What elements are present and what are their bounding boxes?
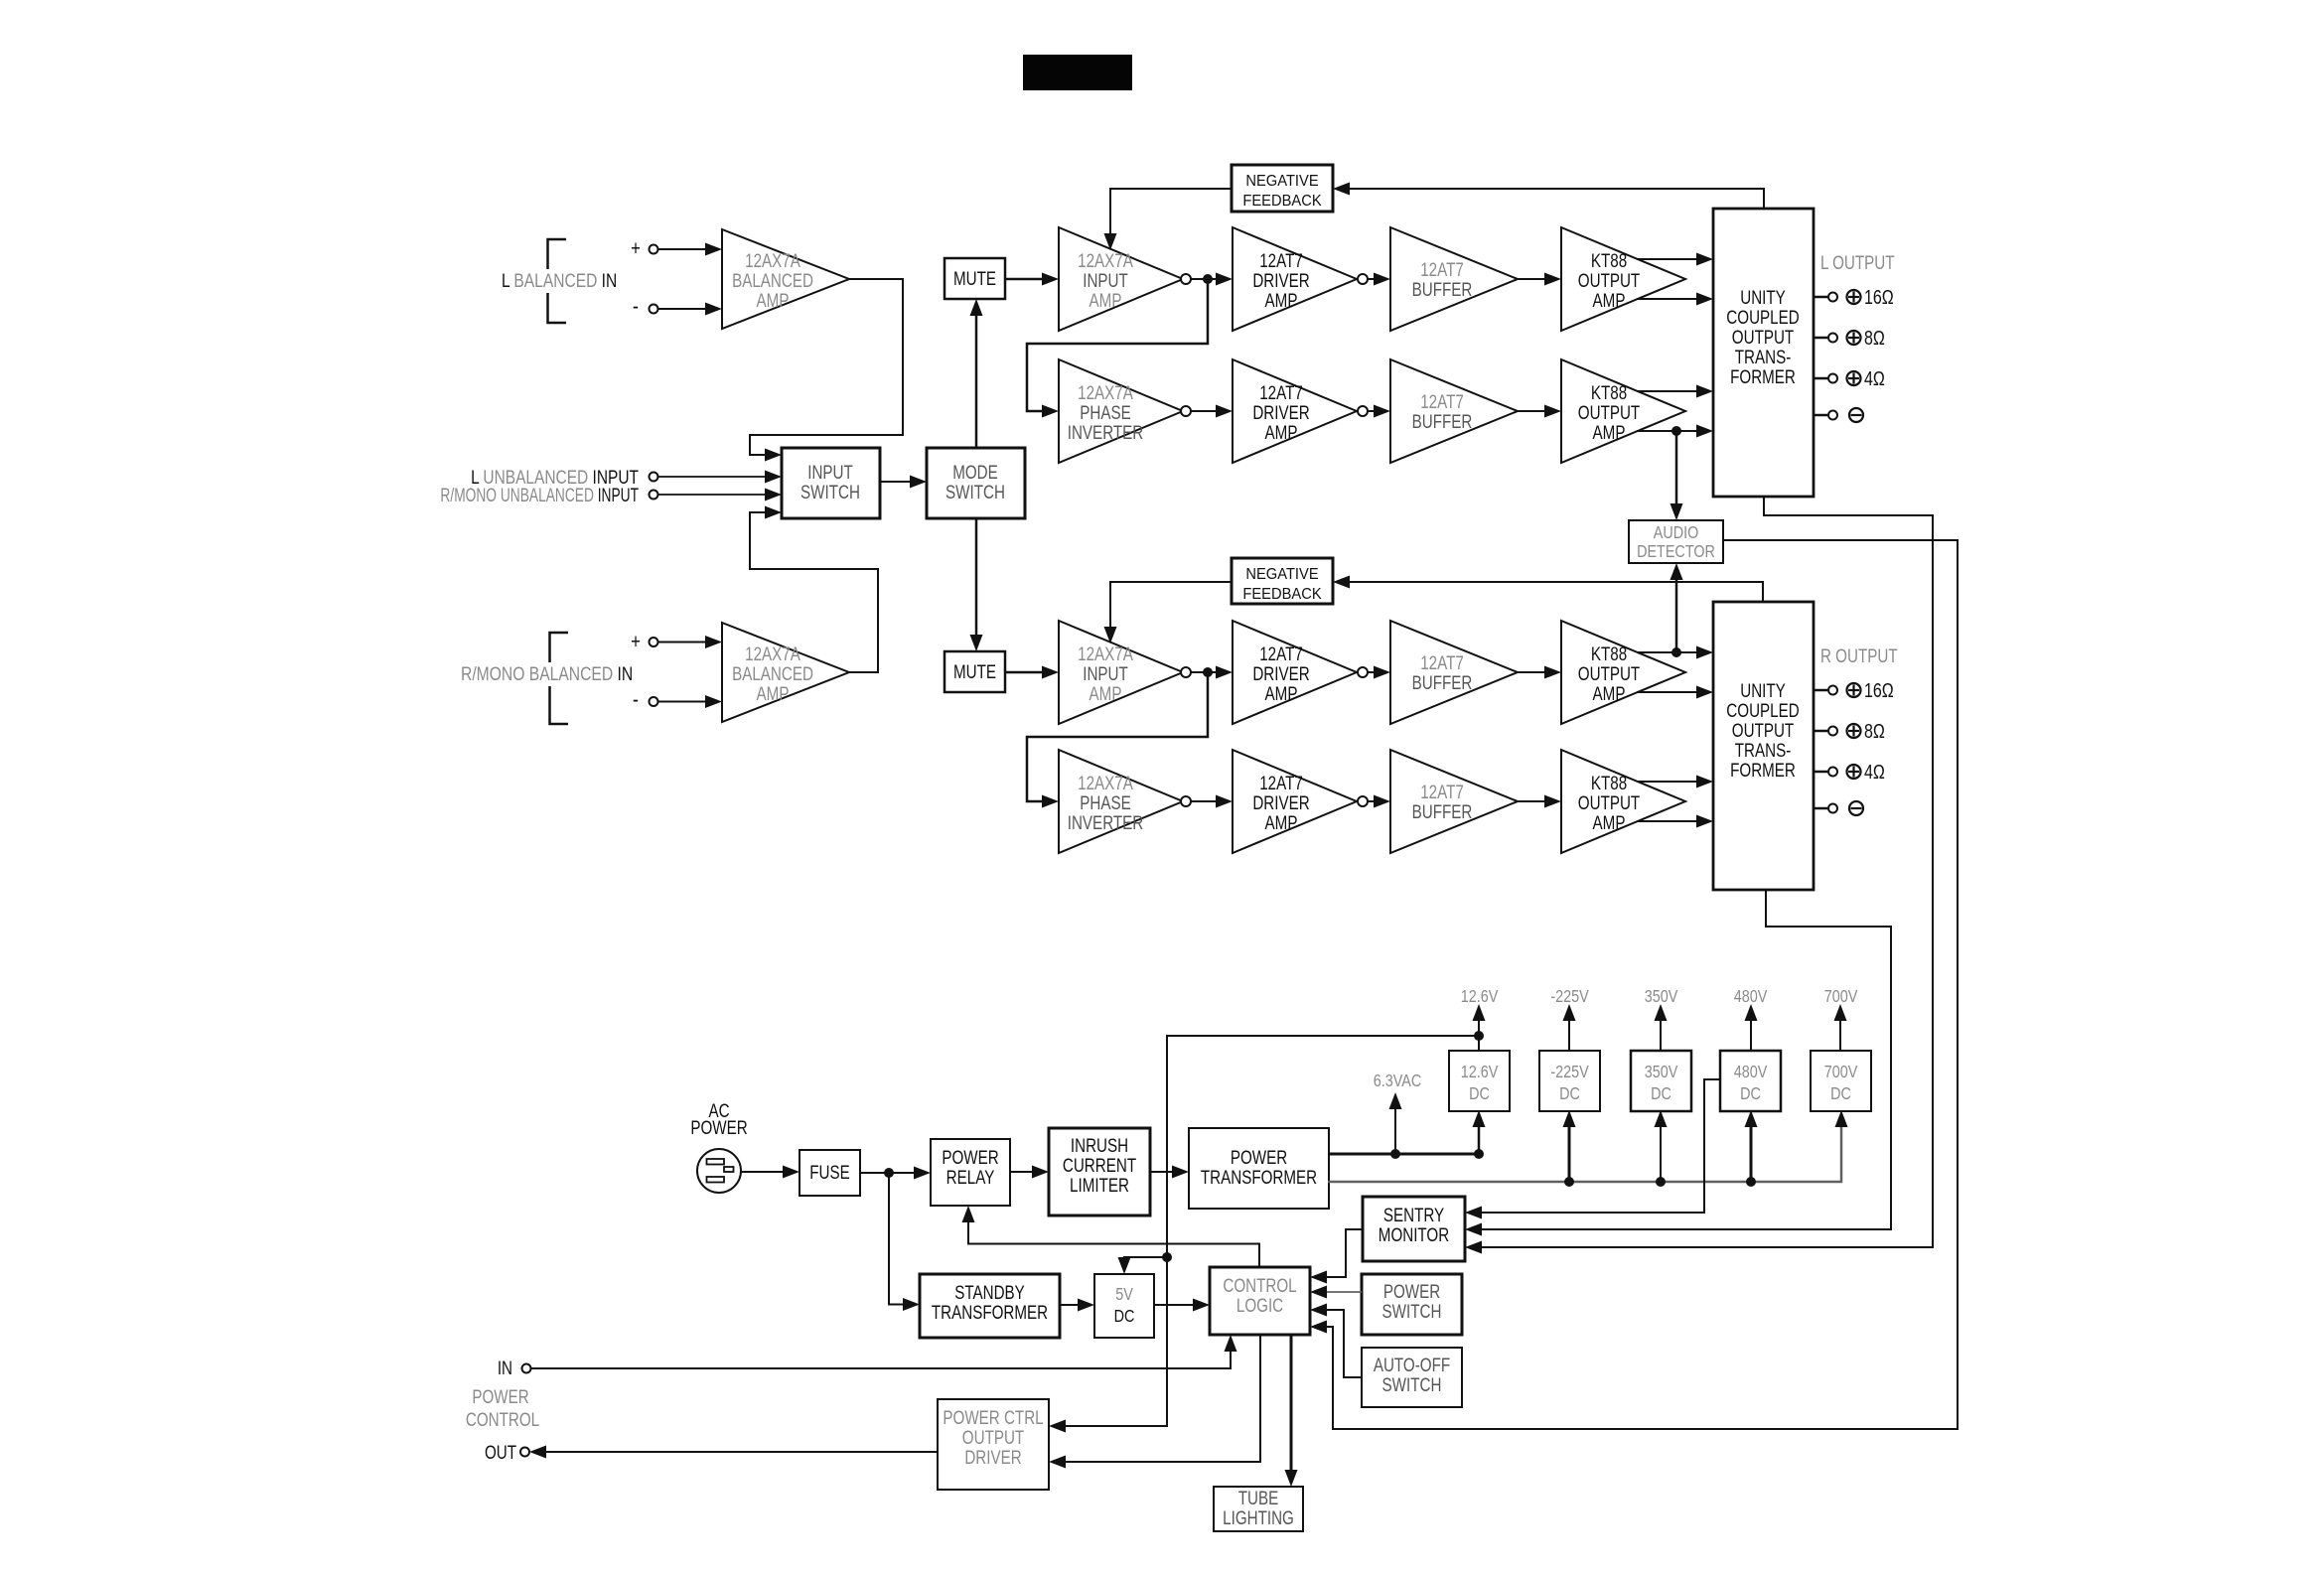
block 480V DC [1720,1051,1781,1111]
wire R buffer to KT88 row1 [1518,671,1544,673]
wire L buffer to KT88 row2 [1518,410,1544,412]
wire R KT88 to audio detector [1675,578,1678,652]
node dot 480V [1746,1177,1756,1187]
svg-text:350V: 350V [1645,987,1678,1007]
svg-text:POWER: POWER [1231,1146,1287,1168]
node dot on L KT88 lower output [1671,426,1681,436]
wire R feedback box to input amp [1110,582,1232,629]
wire sentry monitor to control logic [1327,1229,1363,1277]
svg-text:OUTPUT: OUTPUT [1578,791,1641,813]
wire control logic to tube lighting [1290,1335,1293,1472]
svg-text:POWER: POWER [472,1385,528,1407]
terminal R 4 ohm [1814,771,1827,774]
block 700V DC [1811,1051,1871,1111]
svg-text:12AT7: 12AT7 [1420,258,1464,280]
op-amp R 12AX7A phase inverter [1059,750,1183,853]
svg-text:AMP: AMP [1089,682,1122,704]
svg-text:FUSE: FUSE [809,1161,850,1183]
svg-text:LIMITER: LIMITER [1070,1174,1129,1196]
svg-text:POWER: POWER [690,1116,747,1138]
svg-text:DC: DC [1740,1084,1761,1104]
wire to -225V DC box [1568,1125,1571,1182]
wire 480V output arrow [1750,1019,1752,1051]
wire L balanced amp to input switch [750,279,903,455]
svg-text:SWITCH: SWITCH [800,481,860,502]
wire fuse to power relay [860,1172,914,1174]
svg-text:DC: DC [1651,1084,1671,1104]
svg-text:12AX7A: 12AX7A [1078,643,1133,664]
svg-text:FEEDBACK: FEEDBACK [1242,585,1322,603]
wire 5V DC to control logic [1154,1304,1193,1306]
svg-text:-: - [633,294,639,319]
svg-text:OUTPUT: OUTPUT [1578,401,1641,423]
svg-text:BALANCED: BALANCED [732,269,813,291]
block R NEGATIVE FEEDBACK [1232,558,1333,604]
svg-text:4Ω: 4Ω [1864,761,1885,783]
wire 350V output arrow [1660,1019,1662,1051]
block POWER CTRL OUTPUT DRIVER [938,1399,1049,1490]
svg-text:BUFFER: BUFFER [1412,410,1473,432]
svg-text:+: + [631,237,641,260]
svg-text:700V: 700V [1824,1063,1858,1082]
wire L buffer to KT88 row1 [1518,278,1544,280]
svg-text:AMP: AMP [1089,289,1122,311]
svg-text:DC: DC [1469,1084,1490,1104]
svg-text:4Ω: 4Ω [1864,367,1885,389]
wire input switch to mode switch [880,481,910,483]
op-amp R KT88 output amp row1 [1561,621,1685,724]
wire HV rail [1328,1125,1841,1182]
svg-text:-225V: -225V [1550,1063,1589,1082]
svg-text:RELAY: RELAY [946,1166,995,1188]
svg-text:AMP: AMP [1593,811,1626,833]
block AUDIO DETECTOR [1629,520,1723,563]
svg-text:AMP: AMP [1593,682,1626,704]
terminal L 16 ohm [1814,296,1827,299]
svg-text:12AX7A: 12AX7A [1078,772,1133,793]
terminal L 4 ohm [1814,377,1827,380]
svg-text:UNITY: UNITY [1740,286,1786,308]
wire L KT88 to audio detector [1675,431,1678,505]
wire R balanced amp to input switch [750,512,878,672]
node junction after fuse [884,1168,894,1178]
svg-text:BALANCED: BALANCED [732,662,813,684]
svg-text:12AX7A: 12AX7A [1078,381,1133,403]
wire L phase inverter to driver [1191,410,1218,412]
AC plug icon [697,1149,741,1193]
wire R driver to buffer row1 [1368,671,1375,673]
svg-text:IN: IN [498,1357,512,1378]
node R driver row2 output [1358,796,1368,806]
wire R KT88 row2 lower output [1637,820,1696,822]
terminal L common [1814,414,1827,417]
svg-text:R/MONO UNBALANCED INPUT: R/MONO UNBALANCED INPUT [440,485,639,506]
wire junction to standby transformer [889,1173,903,1305]
wire plug to fuse [741,1171,785,1173]
wire L KT88 row1 lower output [1637,298,1696,300]
wire R mute to input amp [1005,671,1043,674]
wire power switch to control logic [1327,1291,1362,1293]
svg-text:12AX7A: 12AX7A [1078,249,1133,271]
svg-text:DRIVER: DRIVER [1252,269,1309,291]
block L MUTE [944,258,1005,299]
block POWER RELAY [931,1139,1010,1206]
wire standby transformer to 5V DC [1060,1304,1078,1306]
op-amp R KT88 output amp row2 [1561,750,1685,853]
block MODE SWITCH [927,448,1025,518]
op-amp L 12AT7 buffer row2 [1390,359,1518,463]
block R unity coupled output transformer [1713,602,1814,890]
svg-text:8Ω: 8Ω [1864,327,1885,349]
wire to 12.6V DC box [1478,1125,1481,1154]
svg-text:TRANSFORMER: TRANSFORMER [1201,1166,1317,1188]
wire 12.6V rail to power control driver [1066,1036,1479,1426]
svg-text:COUPLED: COUPLED [1726,306,1799,328]
node R junction dot [1203,667,1213,677]
svg-text:BUFFER: BUFFER [1412,800,1473,822]
wire L transformer top to feedback box [1350,189,1764,209]
svg-text:480V: 480V [1734,1063,1768,1082]
op-amp L 12AX7A balanced amp [722,229,849,329]
wire R input amp to driver [1191,671,1218,673]
wire 700V output arrow [1839,1019,1841,1051]
svg-text:700V: 700V [1824,987,1858,1007]
svg-text:LIGHTING: LIGHTING [1223,1506,1294,1528]
op-amp R 12AT7 buffer row2 [1390,750,1518,853]
svg-text:16Ω: 16Ω [1864,679,1894,701]
svg-text:6.3VAC: 6.3VAC [1374,1072,1422,1091]
bracket L balanced in [548,239,567,269]
svg-text:480V: 480V [1734,987,1768,1007]
terminal power control IN [522,1364,531,1373]
node L input amp inverting output [1181,274,1191,284]
svg-text:KT88: KT88 [1591,381,1627,403]
wire L KT88 row1 upper output [1637,258,1696,260]
node L junction dot [1203,274,1213,284]
op-amp L KT88 output amp row1 [1561,227,1685,331]
block -225V DC [1539,1051,1600,1111]
svg-text:AMP: AMP [1265,421,1298,443]
svg-text:MONITOR: MONITOR [1379,1223,1449,1245]
svg-text:TRANS-: TRANS- [1735,739,1792,761]
wire control logic to power ctrl driver [1066,1335,1260,1462]
svg-text:350V: 350V [1645,1063,1678,1082]
op-amp R 12AX7A input amp [1059,621,1183,724]
svg-text:AMP: AMP [1265,289,1298,311]
block POWER TRANSFORMER [1189,1128,1329,1209]
block CONTROL LOGIC [1210,1267,1310,1335]
svg-text:16Ω: 16Ω [1864,286,1894,308]
bracket R/MONO balanced in [550,633,569,662]
svg-text:PHASE: PHASE [1080,401,1130,423]
wire R KT88 row1 lower output [1637,691,1696,693]
svg-text:AMP: AMP [757,682,790,704]
svg-text:12AX7A: 12AX7A [745,643,800,664]
svg-text:5V: 5V [1115,1285,1133,1305]
node dot on R KT88 upper output [1671,647,1681,657]
block R MUTE [944,651,1005,692]
node dot 12.6V rail [1474,1031,1484,1041]
wire -225V output arrow [1568,1019,1570,1051]
wire inrush limiter to power transformer [1150,1171,1172,1173]
svg-text:KT88: KT88 [1591,643,1627,664]
svg-text:OUTPUT: OUTPUT [1578,269,1641,291]
svg-text:-225V: -225V [1550,987,1589,1007]
svg-text:OUT: OUT [485,1441,516,1463]
svg-text:OUTPUT: OUTPUT [1732,719,1795,741]
node R driver row1 output [1358,667,1368,677]
wire L junction to phase inverter [1027,279,1208,411]
wire R phase inverter to driver [1191,800,1218,802]
block L unity coupled output transformer [1713,209,1814,497]
wire R buffer to KT88 row2 [1518,800,1544,802]
svg-text:AMP: AMP [1593,289,1626,311]
terminal R 16 ohm [1814,689,1827,692]
svg-text:OUTPUT: OUTPUT [962,1426,1025,1448]
svg-text:12AT7: 12AT7 [1420,651,1464,673]
svg-text:MUTE: MUTE [953,660,996,682]
svg-text:SENTRY: SENTRY [1383,1204,1445,1225]
terminal L unbalanced input [650,473,658,482]
svg-text:SWITCH: SWITCH [945,481,1005,502]
wire to 480V DC box [1750,1125,1753,1182]
svg-text:DC: DC [1559,1084,1580,1104]
wire 480V DC to sentry monitor [1482,1079,1720,1213]
svg-text:R/MONO BALANCED IN: R/MONO BALANCED IN [461,663,633,685]
op-amp R 12AX7A balanced amp [722,623,849,722]
svg-text:CONTROL: CONTROL [466,1408,539,1430]
wire to 350V DC box [1660,1125,1662,1182]
svg-text:+: + [631,631,641,653]
svg-text:AMP: AMP [1593,421,1626,443]
svg-text:SWITCH: SWITCH [1382,1300,1442,1322]
block TUBE LIGHTING [1214,1487,1303,1531]
svg-text:DC: DC [1830,1084,1851,1104]
wire mode switch to R mute [975,518,978,637]
node dot 12.6V feed [1474,1149,1484,1159]
block AUTO-OFF SWITCH [1362,1348,1462,1407]
svg-text:POWER: POWER [1383,1280,1440,1302]
wire control logic to power relay [968,1222,1259,1267]
svg-text:TRANSFORMER: TRANSFORMER [932,1301,1048,1323]
terminal R 8 ohm [1814,730,1827,733]
svg-text:TUBE: TUBE [1238,1487,1279,1508]
wire IN to control logic [531,1352,1232,1368]
wire L feedback box to input amp [1110,189,1232,235]
block 350V DC [1631,1051,1691,1111]
op-amp L 12AT7 driver amp row2 [1233,359,1357,463]
op-amp L 12AX7A input amp [1059,227,1183,331]
wire R KT88 row1 upper output [1637,651,1696,653]
block 5V DC [1094,1274,1154,1338]
wire R driver to buffer row2 [1368,800,1375,802]
wire 6.3VAC rail [1328,1153,1479,1156]
svg-text:12AT7: 12AT7 [1259,772,1303,793]
node dot -225V [1564,1177,1574,1187]
block FUSE [799,1150,860,1196]
svg-text:INVERTER: INVERTER [1068,421,1144,443]
svg-text:-: - [633,687,639,712]
wire 12.6V branch to 5V DC [1124,1257,1167,1263]
svg-text:OUTPUT: OUTPUT [1732,326,1795,348]
svg-text:INPUT: INPUT [1083,269,1128,291]
svg-text:LOGIC: LOGIC [1236,1294,1283,1316]
wire L driver to buffer row1 [1368,278,1375,280]
svg-text:PHASE: PHASE [1080,791,1130,813]
svg-text:POWER: POWER [942,1146,998,1168]
svg-text:KT88: KT88 [1591,772,1627,793]
terminal power control OUT [520,1448,529,1457]
block INRUSH CURRENT LIMITER [1049,1128,1150,1215]
op-amp R 12AT7 buffer row1 [1390,621,1518,724]
wire R transformer top to feedback box [1350,582,1763,602]
McIntosh logo block [1023,55,1132,90]
wire R KT88 row2 upper output [1637,781,1696,783]
svg-text:NEGATIVE: NEGATIVE [1245,565,1318,583]
svg-text:12AX7A: 12AX7A [745,249,800,271]
svg-text:CURRENT: CURRENT [1063,1154,1137,1176]
wire L KT88 row2 lower output [1637,430,1696,432]
svg-text:AUTO-OFF: AUTO-OFF [1374,1354,1450,1375]
svg-text:OUTPUT: OUTPUT [1578,662,1641,684]
wire L mute to input amp [1005,278,1043,281]
svg-text:DC: DC [1114,1307,1135,1327]
wire power relay to inrush limiter [1010,1171,1032,1173]
svg-text:POWER CTRL: POWER CTRL [943,1406,1043,1428]
block STANDBY TRANSFORMER [920,1274,1060,1338]
wire 6.3VAC arrow [1394,1107,1396,1154]
svg-text:12AT7: 12AT7 [1259,643,1303,664]
node dot 350V [1656,1177,1666,1187]
block POWER SWITCH [1362,1274,1462,1335]
svg-text:INPUT: INPUT [807,461,853,483]
terminal R/MONO unbalanced input [650,491,658,500]
wire audio detector to control logic [1327,540,1958,1429]
svg-text:12.6V: 12.6V [1461,987,1499,1007]
svg-text:L OUTPUT: L OUTPUT [1820,251,1895,273]
svg-text:FORMER: FORMER [1730,759,1796,781]
node R phase inverter output [1181,796,1191,806]
op-amp L KT88 output amp row2 [1561,359,1685,463]
wire 12.6V output arrow [1478,1019,1480,1051]
svg-text:AMP: AMP [1265,811,1298,833]
svg-text:12AT7: 12AT7 [1259,381,1303,403]
svg-text:DRIVER: DRIVER [1252,662,1309,684]
svg-text:UNITY: UNITY [1740,679,1786,701]
terminal L 8 ohm [1814,337,1827,340]
op-amp R 12AT7 driver amp row2 [1233,750,1357,853]
wire power control driver to OUT [546,1451,938,1453]
svg-text:BUFFER: BUFFER [1412,671,1473,693]
svg-text:KT88: KT88 [1591,249,1627,271]
wire R transformer to sentry monitor [1482,890,1891,1229]
svg-text:MODE: MODE [952,461,998,483]
svg-text:12AT7: 12AT7 [1420,390,1464,412]
wire L driver to buffer row2 [1368,410,1375,412]
block 12.6V DC [1449,1051,1510,1111]
block SENTRY MONITOR [1363,1197,1465,1261]
svg-text:MUTE: MUTE [953,267,996,289]
node L phase inverter output [1181,406,1191,416]
node L driver row2 output [1358,406,1368,416]
wire L KT88 row2 upper output [1637,390,1696,392]
svg-text:AMP: AMP [757,289,790,311]
svg-text:L BALANCED IN: L BALANCED IN [502,270,617,292]
svg-text:AMP: AMP [1265,682,1298,704]
wire auto-off switch to control logic [1327,1310,1362,1377]
svg-text:COUPLED: COUPLED [1726,699,1799,721]
op-amp R 12AT7 driver amp row1 [1233,621,1357,724]
svg-text:BUFFER: BUFFER [1412,278,1473,300]
block L NEGATIVE FEEDBACK [1232,165,1333,212]
svg-text:CONTROL: CONTROL [1223,1274,1296,1296]
node R input amp inverting output [1181,667,1191,677]
svg-text:SWITCH: SWITCH [1382,1373,1442,1395]
op-amp L 12AT7 buffer row1 [1390,227,1518,331]
wire mode switch to L mute [975,314,978,448]
op-amp L 12AX7A phase inverter [1059,359,1183,463]
svg-text:DRIVER: DRIVER [1252,401,1309,423]
op-amp L 12AT7 driver amp row1 [1233,227,1357,331]
svg-text:TRANS-: TRANS- [1735,346,1792,367]
svg-text:12AT7: 12AT7 [1259,249,1303,271]
svg-text:12.6V: 12.6V [1461,1063,1499,1082]
node L driver row1 output [1358,274,1368,284]
svg-text:8Ω: 8Ω [1864,720,1885,742]
svg-text:NEGATIVE: NEGATIVE [1245,172,1318,190]
svg-text:AUDIO: AUDIO [1654,523,1699,543]
node dot 6.3VAC [1390,1149,1400,1159]
svg-text:STANDBY: STANDBY [954,1281,1025,1303]
svg-text:R OUTPUT: R OUTPUT [1820,644,1898,666]
svg-text:DRIVER: DRIVER [964,1446,1021,1468]
wire L input amp to driver [1191,278,1218,280]
svg-text:DETECTOR: DETECTOR [1637,542,1715,562]
svg-text:INRUSH: INRUSH [1071,1134,1128,1156]
svg-text:INVERTER: INVERTER [1068,811,1144,833]
wire R junction to phase inverter [1027,672,1208,801]
svg-text:FEEDBACK: FEEDBACK [1242,192,1322,210]
svg-text:INPUT: INPUT [1083,662,1128,684]
svg-text:DRIVER: DRIVER [1252,791,1309,813]
svg-text:FORMER: FORMER [1730,365,1796,387]
block INPUT SWITCH [782,448,880,518]
node dot 12.6V branch to 5V [1162,1252,1172,1262]
terminal R common [1814,807,1827,810]
wire L transformer to sentry monitor [1482,497,1933,1247]
svg-text:12AT7: 12AT7 [1420,781,1464,802]
